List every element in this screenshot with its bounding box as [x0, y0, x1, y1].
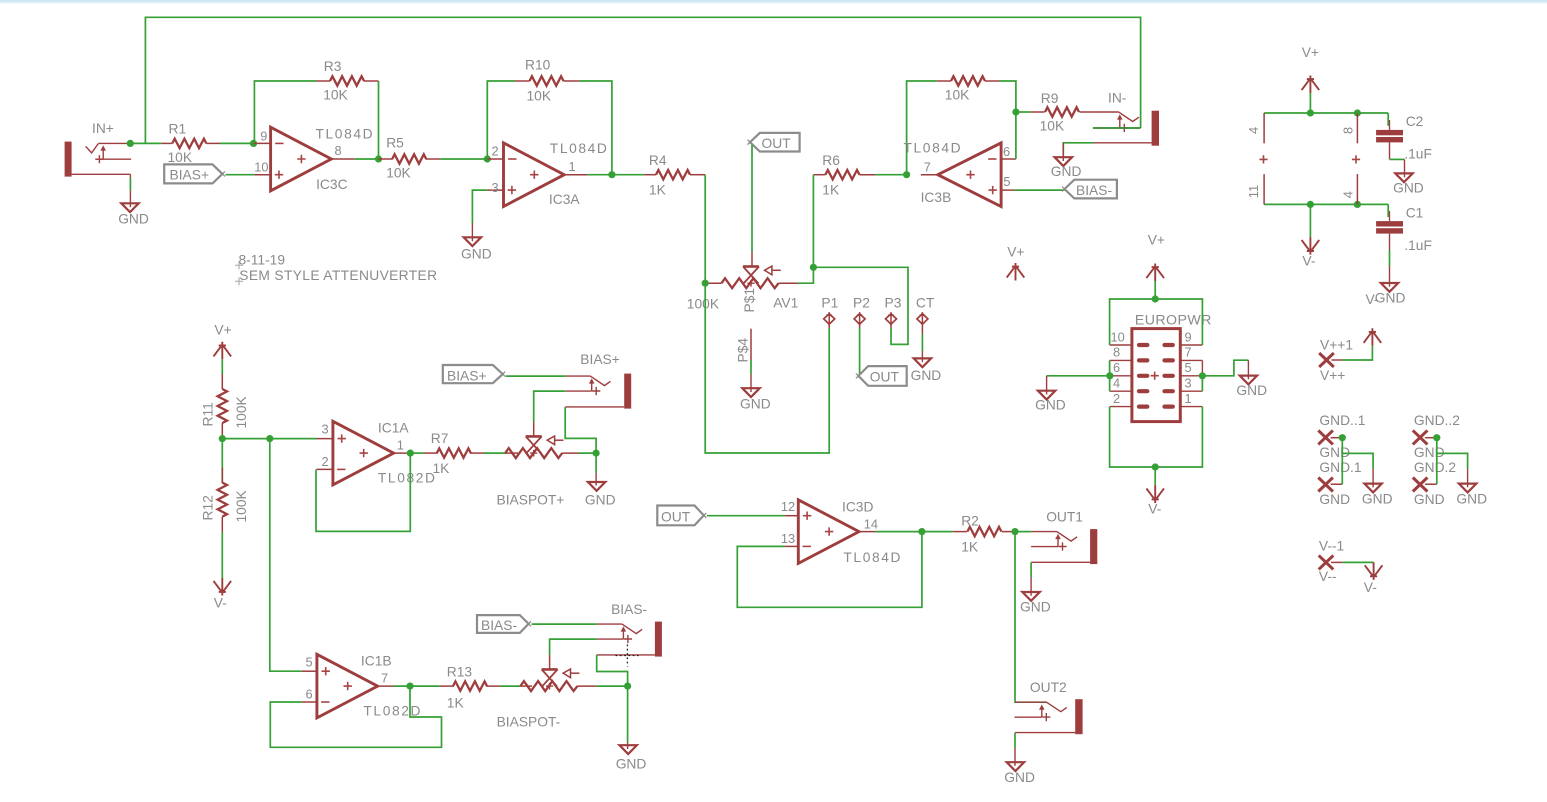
wire pin5 to BIAS- label: [1015, 189, 1065, 191]
wire V++1 to V+ arrow: [1343, 346, 1373, 360]
node BIASPOT- right junction: [624, 683, 631, 690]
svg-text:R9: R9: [1041, 91, 1059, 106]
resistor R2 1K: [953, 514, 1015, 555]
svg-text:10: 10: [254, 159, 268, 174]
ground GND (pot P$4): [740, 375, 771, 412]
ground GND (C1): [1366, 266, 1406, 307]
wire GND..1 ties: [1341, 438, 1343, 485]
svg-text:10K: 10K: [945, 88, 970, 103]
svg-text:IC3A: IC3A: [549, 192, 580, 207]
wire out to R7: [410, 452, 423, 454]
ground GND (BIASPOT+): [585, 473, 616, 508]
svg-text:TL084D: TL084D: [904, 141, 963, 156]
wire V+ box to pins 10/9: [1110, 299, 1203, 345]
svg-text:GND..1: GND..1: [1319, 413, 1365, 428]
pin 6 lead: [1110, 375, 1132, 377]
label BIAS- (IC3B pin5): [1062, 180, 1117, 199]
svg-text:1K: 1K: [649, 182, 667, 197]
pin 7 lead: [1180, 359, 1202, 361]
svg-text:V-: V-: [1364, 580, 1377, 595]
svg-text:BIAS-: BIAS-: [1076, 183, 1112, 198]
net stub GND..1: [1318, 413, 1365, 507]
wire P2 down to OUT flag: [859, 328, 861, 375]
svg-text:V-: V-: [1148, 502, 1161, 517]
supply V+ (above R11): [214, 323, 232, 375]
svg-text:V--1: V--1: [1319, 539, 1344, 554]
svg-text:V+: V+: [1148, 233, 1165, 248]
wire pin5 to GND right: [1202, 360, 1248, 376]
svg-text:7: 7: [381, 671, 388, 686]
node EUROPWR bottom junction: [1152, 463, 1159, 470]
svg-text:AV1: AV1: [773, 296, 798, 311]
ground GND (GND..1): [1362, 469, 1393, 506]
pin header P1: [821, 296, 838, 329]
node IN+ junction: [127, 140, 134, 147]
ground GND (BIASPOT-): [616, 743, 647, 772]
node IC3A out junction: [608, 171, 615, 178]
svg-text:GND: GND: [1414, 492, 1445, 507]
svg-text:4: 4: [1341, 191, 1356, 198]
wire to R4: [612, 174, 644, 176]
pin header CT: [916, 296, 935, 335]
svg-text:R1: R1: [169, 122, 187, 137]
svg-text:V++1: V++1: [1320, 338, 1353, 353]
svg-text:R7: R7: [431, 431, 449, 446]
resistor R11 100K (vertical): [201, 374, 250, 439]
pin stubs inside left column: [1139, 345, 1147, 407]
node EUROPWR pin5 junction: [1199, 372, 1206, 379]
potentiometer BIASPOT+: [497, 422, 579, 508]
ground GND (IC3A pin3): [461, 223, 492, 262]
svg-text:P1: P1: [821, 296, 838, 311]
IC supply pin 8 (mid): [1341, 113, 1358, 143]
svg-text:GND: GND: [911, 368, 942, 383]
node IC3A pin2 junction: [484, 155, 491, 162]
wire junction to P3 column: [813, 267, 908, 344]
svg-text:100K: 100K: [234, 395, 249, 428]
resistor R9 10K: [1031, 91, 1094, 134]
ground GND (CT): [911, 351, 942, 383]
wire OUT1 sleeve to GND: [1030, 562, 1032, 577]
svg-text:IC1B: IC1B: [361, 654, 392, 669]
svg-text:P2: P2: [853, 296, 870, 311]
svg-text:IC3B: IC3B: [921, 190, 952, 205]
svg-text:TL084D: TL084D: [316, 126, 375, 141]
wire BIAS- flag to jack tip: [532, 623, 597, 625]
wire pot P$4 to GND: [750, 360, 752, 375]
svg-text:10K: 10K: [386, 166, 411, 181]
wire P1 down to bottom rail: [705, 283, 829, 453]
wire V- rail bottom: [1264, 203, 1388, 205]
svg-text:GND: GND: [1456, 492, 1487, 507]
supply V+ (top right rail): [1302, 45, 1320, 113]
svg-text:4: 4: [1246, 127, 1261, 134]
svg-text:12: 12: [781, 499, 795, 514]
supply V+ (above EUROPWR): [1146, 233, 1165, 300]
resistor R12 100K (vertical): [201, 439, 250, 532]
svg-text:3: 3: [492, 180, 499, 195]
pin header P2: [853, 296, 870, 329]
svg-text:4: 4: [1113, 376, 1120, 391]
svg-text:IN-: IN-: [1108, 91, 1126, 106]
svg-text:GND..2: GND..2: [1414, 413, 1460, 428]
svg-text:P$1: P$1: [742, 288, 757, 313]
label BIAS+ (to IC3C pin10): [164, 164, 225, 183]
node R11/R12 junction: [219, 435, 226, 442]
svg-text:5: 5: [306, 655, 313, 670]
resistor R13 1K: [440, 665, 500, 711]
wire pin6 to GND left: [1047, 375, 1110, 377]
svg-text:7: 7: [924, 160, 931, 175]
svg-text:2: 2: [322, 454, 329, 469]
jack BIAS+ J3: [565, 352, 631, 409]
wire R13 to BIASPOT-: [500, 685, 520, 687]
pin stubs inside right column: [1165, 345, 1173, 407]
svg-text:R2: R2: [961, 514, 979, 529]
wire R10 feedback loop: [487, 81, 515, 159]
svg-text:OUT1: OUT1: [1046, 510, 1083, 525]
svg-text:R4: R4: [649, 153, 667, 168]
pin 2 lead: [1110, 406, 1132, 408]
wire V+ rail top: [1264, 112, 1388, 114]
svg-text:R11: R11: [201, 402, 216, 426]
resistor R5 10K: [379, 136, 441, 181]
node branch junction: [266, 435, 273, 442]
ground GND (C2): [1393, 159, 1424, 195]
svg-text:BIAS+: BIAS+: [447, 369, 487, 384]
svg-text:10: 10: [1111, 330, 1125, 345]
svg-text:TL082D: TL082D: [378, 470, 437, 485]
svg-text:11: 11: [1246, 185, 1261, 198]
node IC1A out junction: [407, 450, 414, 457]
ground GND (IN- jack): [1051, 143, 1082, 179]
crosshair cursor (dotted): [616, 645, 639, 667]
op-amp IC3B TL084D (mirrored): [904, 141, 1016, 207]
svg-text:GND.2: GND.2: [1414, 460, 1456, 475]
svg-text:BIAS+: BIAS+: [170, 168, 210, 183]
wire junction to GND: [627, 686, 629, 742]
pin 10 lead: [1110, 344, 1132, 346]
svg-text:V--: V--: [1319, 569, 1337, 584]
svg-text:OUT2: OUT2: [1030, 680, 1067, 695]
IC power + mark (mid): [1352, 155, 1360, 163]
wire R4 down to pot node: [704, 175, 706, 284]
svg-text:IC1A: IC1A: [378, 421, 409, 436]
node IC3B out junction: [903, 171, 910, 178]
svg-text:CT: CT: [916, 296, 935, 311]
svg-text:GND: GND: [1020, 600, 1051, 615]
capacitor C2 .1uF: [1376, 113, 1432, 162]
wire IN- sleeve to GND: [1063, 143, 1093, 156]
pin 1 lead: [1180, 406, 1202, 408]
svg-text:R13: R13: [447, 665, 473, 680]
node EUROPWR pin6 junction: [1106, 372, 1113, 379]
svg-text:IN+: IN+: [92, 121, 114, 136]
wire out to R2: [876, 531, 953, 533]
svg-text:GND: GND: [740, 397, 771, 412]
label BIAS+ (flag, feeds jack): [443, 365, 505, 384]
IC supply pin 4 (left): [1246, 113, 1264, 143]
svg-text:100K: 100K: [234, 489, 249, 522]
wire BIAS+ to pin10: [225, 174, 254, 176]
op-amp IC3D TL084D: [781, 499, 902, 565]
svg-text:1: 1: [397, 438, 404, 453]
node R2 right junction: [1011, 528, 1018, 535]
svg-text:OUT: OUT: [762, 136, 792, 151]
supply V- (V-- stub): [1364, 562, 1383, 595]
op-amp IC3C TL084D: [254, 126, 375, 192]
svg-text:5: 5: [1003, 174, 1010, 189]
wire R1 to pin9 node: [220, 142, 254, 144]
svg-text:1: 1: [1185, 391, 1192, 406]
node pot left junction: [702, 280, 709, 287]
wire OUT flag down to pot wiper: [751, 145, 753, 252]
potentiometer BIASPOT-: [497, 655, 597, 730]
resistor R6 1K: [813, 153, 875, 197]
wire CT to GND: [921, 334, 923, 351]
wire R3 feedback loop: [254, 81, 316, 143]
wire junction down to OUT2 tip: [1015, 532, 1046, 703]
wire OUT flag to pin12: [707, 515, 785, 517]
svg-text:1K: 1K: [433, 461, 451, 476]
wire junction to GND: [595, 453, 597, 473]
svg-text:BIAS-: BIAS-: [481, 618, 517, 633]
wire pins 7-5-3 tie (right): [1201, 360, 1203, 375]
op-amp IC1B TL082D: [302, 654, 422, 719]
wire IN+ sleeve to GND: [129, 178, 131, 191]
svg-text:GND: GND: [1375, 291, 1406, 306]
svg-text:V-: V-: [214, 596, 227, 611]
wire pot- to junction: [597, 685, 628, 687]
wire node to IC1A pin3: [222, 438, 316, 440]
svg-text:GND: GND: [585, 493, 616, 508]
ground GND (IN+ jack): [118, 191, 149, 227]
op-amp IC3A TL084D: [487, 141, 608, 207]
svg-text:10K: 10K: [323, 88, 348, 103]
svg-text:100K: 100K: [687, 297, 720, 312]
IC supply pin 11 (left): [1246, 174, 1264, 204]
ground GND (EUROPWR right): [1236, 360, 1267, 398]
resistor R8 10K (IC3B feedback): [937, 76, 1000, 102]
node IC3D out junction: [918, 528, 925, 535]
svg-text:1K: 1K: [822, 182, 840, 197]
svg-text:P$4: P$4: [735, 338, 750, 363]
wire pot right to R6 node: [798, 267, 814, 283]
wire branch down to IC1B pin5: [270, 439, 302, 672]
ground GND (GND..2): [1456, 469, 1487, 506]
wire BIAS+ ring to pot wiper: [534, 391, 566, 422]
node EUROPWR top junction: [1152, 295, 1159, 302]
op-amp IC1A TL082D: [317, 421, 437, 486]
svg-text:8: 8: [335, 143, 342, 158]
node R6 elbow junction: [810, 264, 817, 271]
capacitor C1 .1uF: [1376, 204, 1432, 252]
resistor R7 1K: [424, 431, 485, 476]
pin 3 lead: [1180, 390, 1202, 392]
IC supply pin 4 (mid): [1341, 174, 1358, 204]
connector EUROPWR: [1110, 313, 1212, 422]
label OUT (feeds IC3D pin12): [657, 506, 706, 526]
wire IC3D feedback loop: [737, 532, 922, 608]
svg-text:2: 2: [1113, 391, 1120, 406]
svg-text:BIAS-: BIAS-: [611, 602, 647, 617]
svg-text:GND: GND: [1004, 770, 1035, 785]
svg-text:8-11-19: 8-11-19: [239, 253, 286, 268]
wire GND..2 ties: [1436, 438, 1438, 485]
svg-text:OUT: OUT: [870, 370, 900, 385]
svg-text:6: 6: [306, 687, 313, 702]
svg-text:SEM STYLE ATTENUVERTER: SEM STYLE ATTENUVERTER: [239, 268, 437, 283]
wire top long net: [145, 17, 1140, 143]
svg-text:10K: 10K: [1040, 119, 1065, 134]
node V- rail junctions: [1307, 201, 1314, 208]
pin header P3: [885, 296, 902, 329]
supply V+ (V++ stub): [1364, 328, 1382, 346]
net stub GND..2: [1413, 413, 1460, 507]
svg-text:GND: GND: [1236, 383, 1267, 398]
wire out to R13: [394, 685, 440, 687]
wire IC1A feedback loop: [316, 453, 410, 531]
label OUT (at P2): [856, 366, 907, 386]
wire V--1 to V- arrow: [1343, 561, 1374, 563]
svg-text:R12: R12: [201, 495, 216, 520]
supply V- (below EUROPWR): [1146, 467, 1164, 517]
wire R7 to BIASPOT+: [484, 452, 506, 454]
wire R5 to IC3A pin2: [440, 158, 487, 160]
supply V- (below R12): [214, 532, 232, 611]
svg-text:8: 8: [1341, 127, 1356, 134]
wire IN- ring net: [1093, 127, 1141, 129]
svg-text:10K: 10K: [168, 150, 193, 165]
svg-text:6: 6: [1003, 144, 1010, 159]
svg-text:C2: C2: [1406, 114, 1424, 129]
svg-text:V++: V++: [1320, 368, 1345, 383]
svg-text:BIAS+: BIAS+: [580, 352, 620, 367]
ground GND (OUT2): [1004, 748, 1035, 785]
wire OUT2 sleeve to GND: [1014, 733, 1016, 748]
svg-text:EUROPWR: EUROPWR: [1135, 313, 1212, 329]
svg-text:1K: 1K: [447, 696, 465, 711]
svg-text:9: 9: [260, 128, 267, 143]
wire V- box pins 2/1: [1110, 407, 1203, 467]
IC power + mark (left): [1259, 155, 1267, 163]
label OUT (top flag above pot wiper): [748, 133, 800, 152]
svg-text:C1: C1: [1406, 206, 1424, 221]
ground GND (EUROPWR left): [1035, 376, 1066, 413]
svg-text:.1uF: .1uF: [1404, 238, 1432, 253]
svg-text:BIASPOT-: BIASPOT-: [497, 715, 561, 730]
svg-text:9: 9: [1185, 330, 1192, 345]
node R5 left junction: [375, 155, 382, 162]
svg-text:GND: GND: [1035, 398, 1066, 413]
wire IC3B feedback loop: [907, 81, 937, 175]
supply V- (below rail): [1302, 204, 1320, 268]
svg-text:7: 7: [1185, 345, 1192, 360]
svg-text:GND.1: GND.1: [1319, 460, 1361, 475]
wire BIAS+ flag to jack tip: [506, 375, 566, 377]
jack OUT1 J5: [1031, 510, 1097, 565]
wire IC3A out: [588, 174, 612, 176]
svg-text:V-: V-: [1302, 254, 1315, 269]
svg-text:V+: V+: [1007, 245, 1024, 260]
svg-text:IC3D: IC3D: [842, 500, 873, 515]
svg-text:3: 3: [322, 422, 329, 437]
svg-text:5: 5: [1185, 360, 1192, 375]
net stub V++1 / V++: [1319, 338, 1353, 384]
wire BIAS- sleeve to junction: [597, 655, 628, 686]
wire BIAS+ sleeve to junction: [565, 407, 596, 453]
wire IC3C out to R5: [355, 158, 379, 160]
svg-text:GND: GND: [616, 757, 647, 772]
node pin9 junction: [250, 140, 257, 147]
wire IC1B feedback loop: [270, 686, 441, 747]
wire pot+ to junction: [579, 452, 597, 454]
svg-text:TL084D: TL084D: [550, 141, 609, 156]
svg-text:R6: R6: [822, 153, 840, 168]
wire C2 to GND: [1390, 158, 1405, 160]
wire IC3A pin3 to GND: [472, 190, 487, 223]
svg-text:1K: 1K: [961, 540, 979, 555]
ground GND (OUT1): [1020, 578, 1051, 615]
resistor R4 1K: [644, 153, 705, 197]
wire pin6 up to R9 node: [1015, 112, 1017, 159]
svg-text:14: 14: [864, 517, 878, 532]
top toolbar strip: [0, 0, 1547, 2]
svg-text:10K: 10K: [527, 89, 552, 104]
svg-text:3: 3: [1185, 376, 1192, 391]
svg-text:TL084D: TL084D: [843, 550, 902, 565]
wire BIAS- ring to pot wiper: [550, 639, 597, 655]
svg-text:IC3C: IC3C: [316, 177, 347, 192]
svg-text:1: 1: [569, 159, 576, 174]
jack BIAS- J4: [597, 602, 662, 657]
svg-text:BIASPOT+: BIASPOT+: [497, 493, 565, 508]
resistor R10 10K: [515, 58, 580, 104]
wire IN+ node to R1: [130, 142, 161, 144]
wire C1 to GND: [1389, 250, 1391, 266]
svg-text:GND: GND: [1051, 164, 1082, 179]
svg-text:GND: GND: [118, 212, 149, 227]
wire junction to OUT1 tip: [1015, 531, 1031, 533]
svg-text:GND: GND: [1319, 492, 1350, 507]
wire pins 8-6-4 tie (left): [1109, 360, 1111, 391]
jack IN+ J1: [65, 121, 132, 178]
pin 4 lead: [1110, 390, 1132, 392]
pin 9 lead: [1180, 344, 1202, 346]
svg-text:R5: R5: [386, 136, 404, 151]
resistor R3 10K: [316, 59, 379, 103]
svg-text:2: 2: [492, 144, 499, 159]
jack IN- J2: [1093, 91, 1159, 146]
svg-text:R10: R10: [525, 58, 551, 73]
svg-text:13: 13: [781, 531, 795, 546]
svg-text:V+: V+: [214, 323, 231, 338]
svg-text:GND: GND: [1393, 181, 1424, 196]
node IC1B out junction: [406, 683, 413, 690]
svg-text:GND: GND: [461, 247, 492, 262]
jack OUT2 J6: [1015, 680, 1083, 734]
svg-text:V+: V+: [1302, 45, 1319, 60]
pin 8 lead: [1110, 359, 1132, 361]
svg-text:8: 8: [1113, 345, 1120, 360]
net stub V--1 / V--: [1319, 539, 1345, 585]
wire junction to R9: [1016, 111, 1031, 113]
node R9 left junction: [1012, 108, 1019, 115]
potentiometer AV1 100K: [687, 252, 798, 362]
svg-text:GND: GND: [1362, 492, 1393, 507]
svg-text:R3: R3: [324, 59, 342, 74]
pin 5 lead: [1180, 375, 1202, 377]
